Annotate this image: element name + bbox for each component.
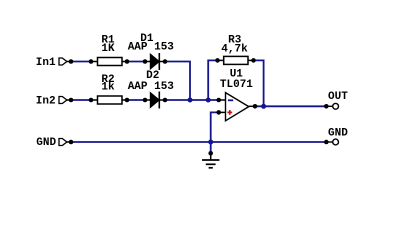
- wire R1 to D1: [127, 61, 145, 63]
- wire ground rail GND to right connector: [71, 141, 326, 143]
- svg-text:TL071: TL071: [220, 79, 253, 91]
- wire R2 to D2: [127, 99, 145, 101]
- ground symbol: [202, 151, 219, 168]
- wire feedback left: node A up to R3: [208, 60, 217, 100]
- junction feedback at inverting input: [206, 98, 211, 103]
- svg-text:AAP 153: AAP 153: [128, 81, 175, 93]
- diode D1: [143, 53, 168, 70]
- svg-text:In2: In2: [36, 95, 56, 107]
- resistor R2: [89, 96, 130, 104]
- wire In1 connector to R1: [71, 61, 91, 63]
- junction node A (D1/D2 outputs): [188, 98, 193, 103]
- connector GND right: [324, 139, 339, 145]
- junction feedback at output: [261, 104, 266, 109]
- wire U1 output to OUT connector: [255, 105, 326, 107]
- connector OUT: [324, 103, 339, 109]
- svg-text:1k: 1k: [101, 81, 115, 93]
- wire U1 non-inverting input down to ground rail: [211, 112, 219, 142]
- connector GND left: [59, 139, 73, 146]
- svg-text:4,7k: 4,7k: [221, 43, 248, 55]
- wire feedback right: R3 down to output: [254, 60, 264, 106]
- connector In2: [59, 97, 73, 104]
- resistor R1: [89, 58, 130, 66]
- wire node A to U1 inverting input: [165, 99, 219, 101]
- pin minus (inverting): [228, 99, 233, 101]
- wire ground rail stub to ground symbol: [210, 142, 212, 153]
- svg-text:GND: GND: [328, 127, 348, 139]
- svg-text:AAP 153: AAP 153: [128, 42, 175, 54]
- svg-text:GND: GND: [36, 137, 56, 149]
- resistor R3: [215, 56, 256, 64]
- svg-text:OUT: OUT: [328, 91, 348, 103]
- junction ground rail: [208, 140, 213, 145]
- diode D2: [143, 92, 168, 109]
- wire D1 cathode to node A (corner down): [165, 62, 190, 101]
- pin plus (non-inverting): [227, 110, 232, 115]
- svg-text:1K: 1K: [101, 43, 115, 55]
- connector In1: [59, 58, 73, 65]
- wire In2 connector to R2: [71, 99, 91, 101]
- svg-text:In1: In1: [36, 57, 56, 69]
- op-amp U1: [216, 93, 257, 121]
